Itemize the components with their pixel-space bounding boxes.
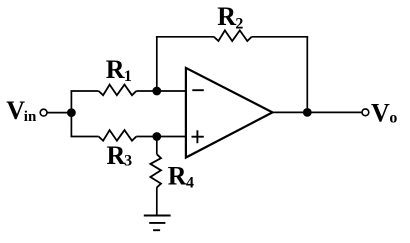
svg-text:3: 3 [124, 153, 132, 170]
svg-text:V: V [371, 98, 390, 127]
label R2 [217, 2, 243, 33]
svg-text:o: o [389, 109, 397, 126]
wire: R1 to node B [136, 90, 157, 92]
op-amp plus sign [192, 136, 204, 138]
label Vin [6, 96, 37, 125]
svg-text:V: V [6, 96, 25, 125]
svg-text:2: 2 [235, 15, 243, 32]
label R3 [107, 141, 133, 170]
wire: R3 to node C [136, 136, 157, 138]
wire: op-amp output to output terminal [273, 111, 363, 113]
wire: feedback riser from node B [156, 37, 158, 91]
op-amp U1 [186, 68, 273, 158]
wire: R4 to ground [156, 187, 158, 215]
input terminal (open circle) [40, 109, 47, 116]
label Vo [371, 98, 397, 127]
svg-text:in: in [24, 109, 37, 125]
output terminal (open circle) [362, 109, 369, 116]
node C (non-inverting input junction dot) [152, 132, 161, 141]
svg-text:R: R [217, 2, 236, 31]
wire: node A vertical branch [70, 91, 72, 137]
node A (input junction dot) [67, 108, 76, 117]
wire: node A to R1 [71, 90, 99, 92]
node D (output junction dot) [303, 108, 312, 117]
resistor R2 [214, 30, 252, 41]
label R1 [106, 55, 132, 85]
wire: feedback top left segment [156, 36, 214, 38]
wire: input terminal to node A [47, 112, 71, 114]
svg-text:1: 1 [124, 68, 132, 85]
wire: feedback top right segment [252, 36, 309, 38]
resistor R4 [150, 154, 161, 187]
wire: node B to op-amp inverting input [157, 90, 186, 92]
resistor R3 [99, 130, 137, 141]
wire: node C to op-amp non-inverting input [157, 136, 186, 138]
label R4 [168, 162, 194, 192]
wire: node C to R4 [156, 137, 158, 155]
svg-text:R: R [168, 162, 187, 191]
op-amp minus sign [192, 89, 204, 91]
resistor R1 [99, 85, 137, 96]
svg-text:R: R [106, 55, 125, 84]
wire: feedback drop to output node [306, 37, 308, 113]
svg-text:4: 4 [186, 174, 194, 191]
node B (inverting input junction dot) [152, 87, 161, 96]
svg-text:R: R [107, 141, 126, 170]
ground [144, 216, 171, 231]
wire: node A to R3 [71, 136, 99, 138]
